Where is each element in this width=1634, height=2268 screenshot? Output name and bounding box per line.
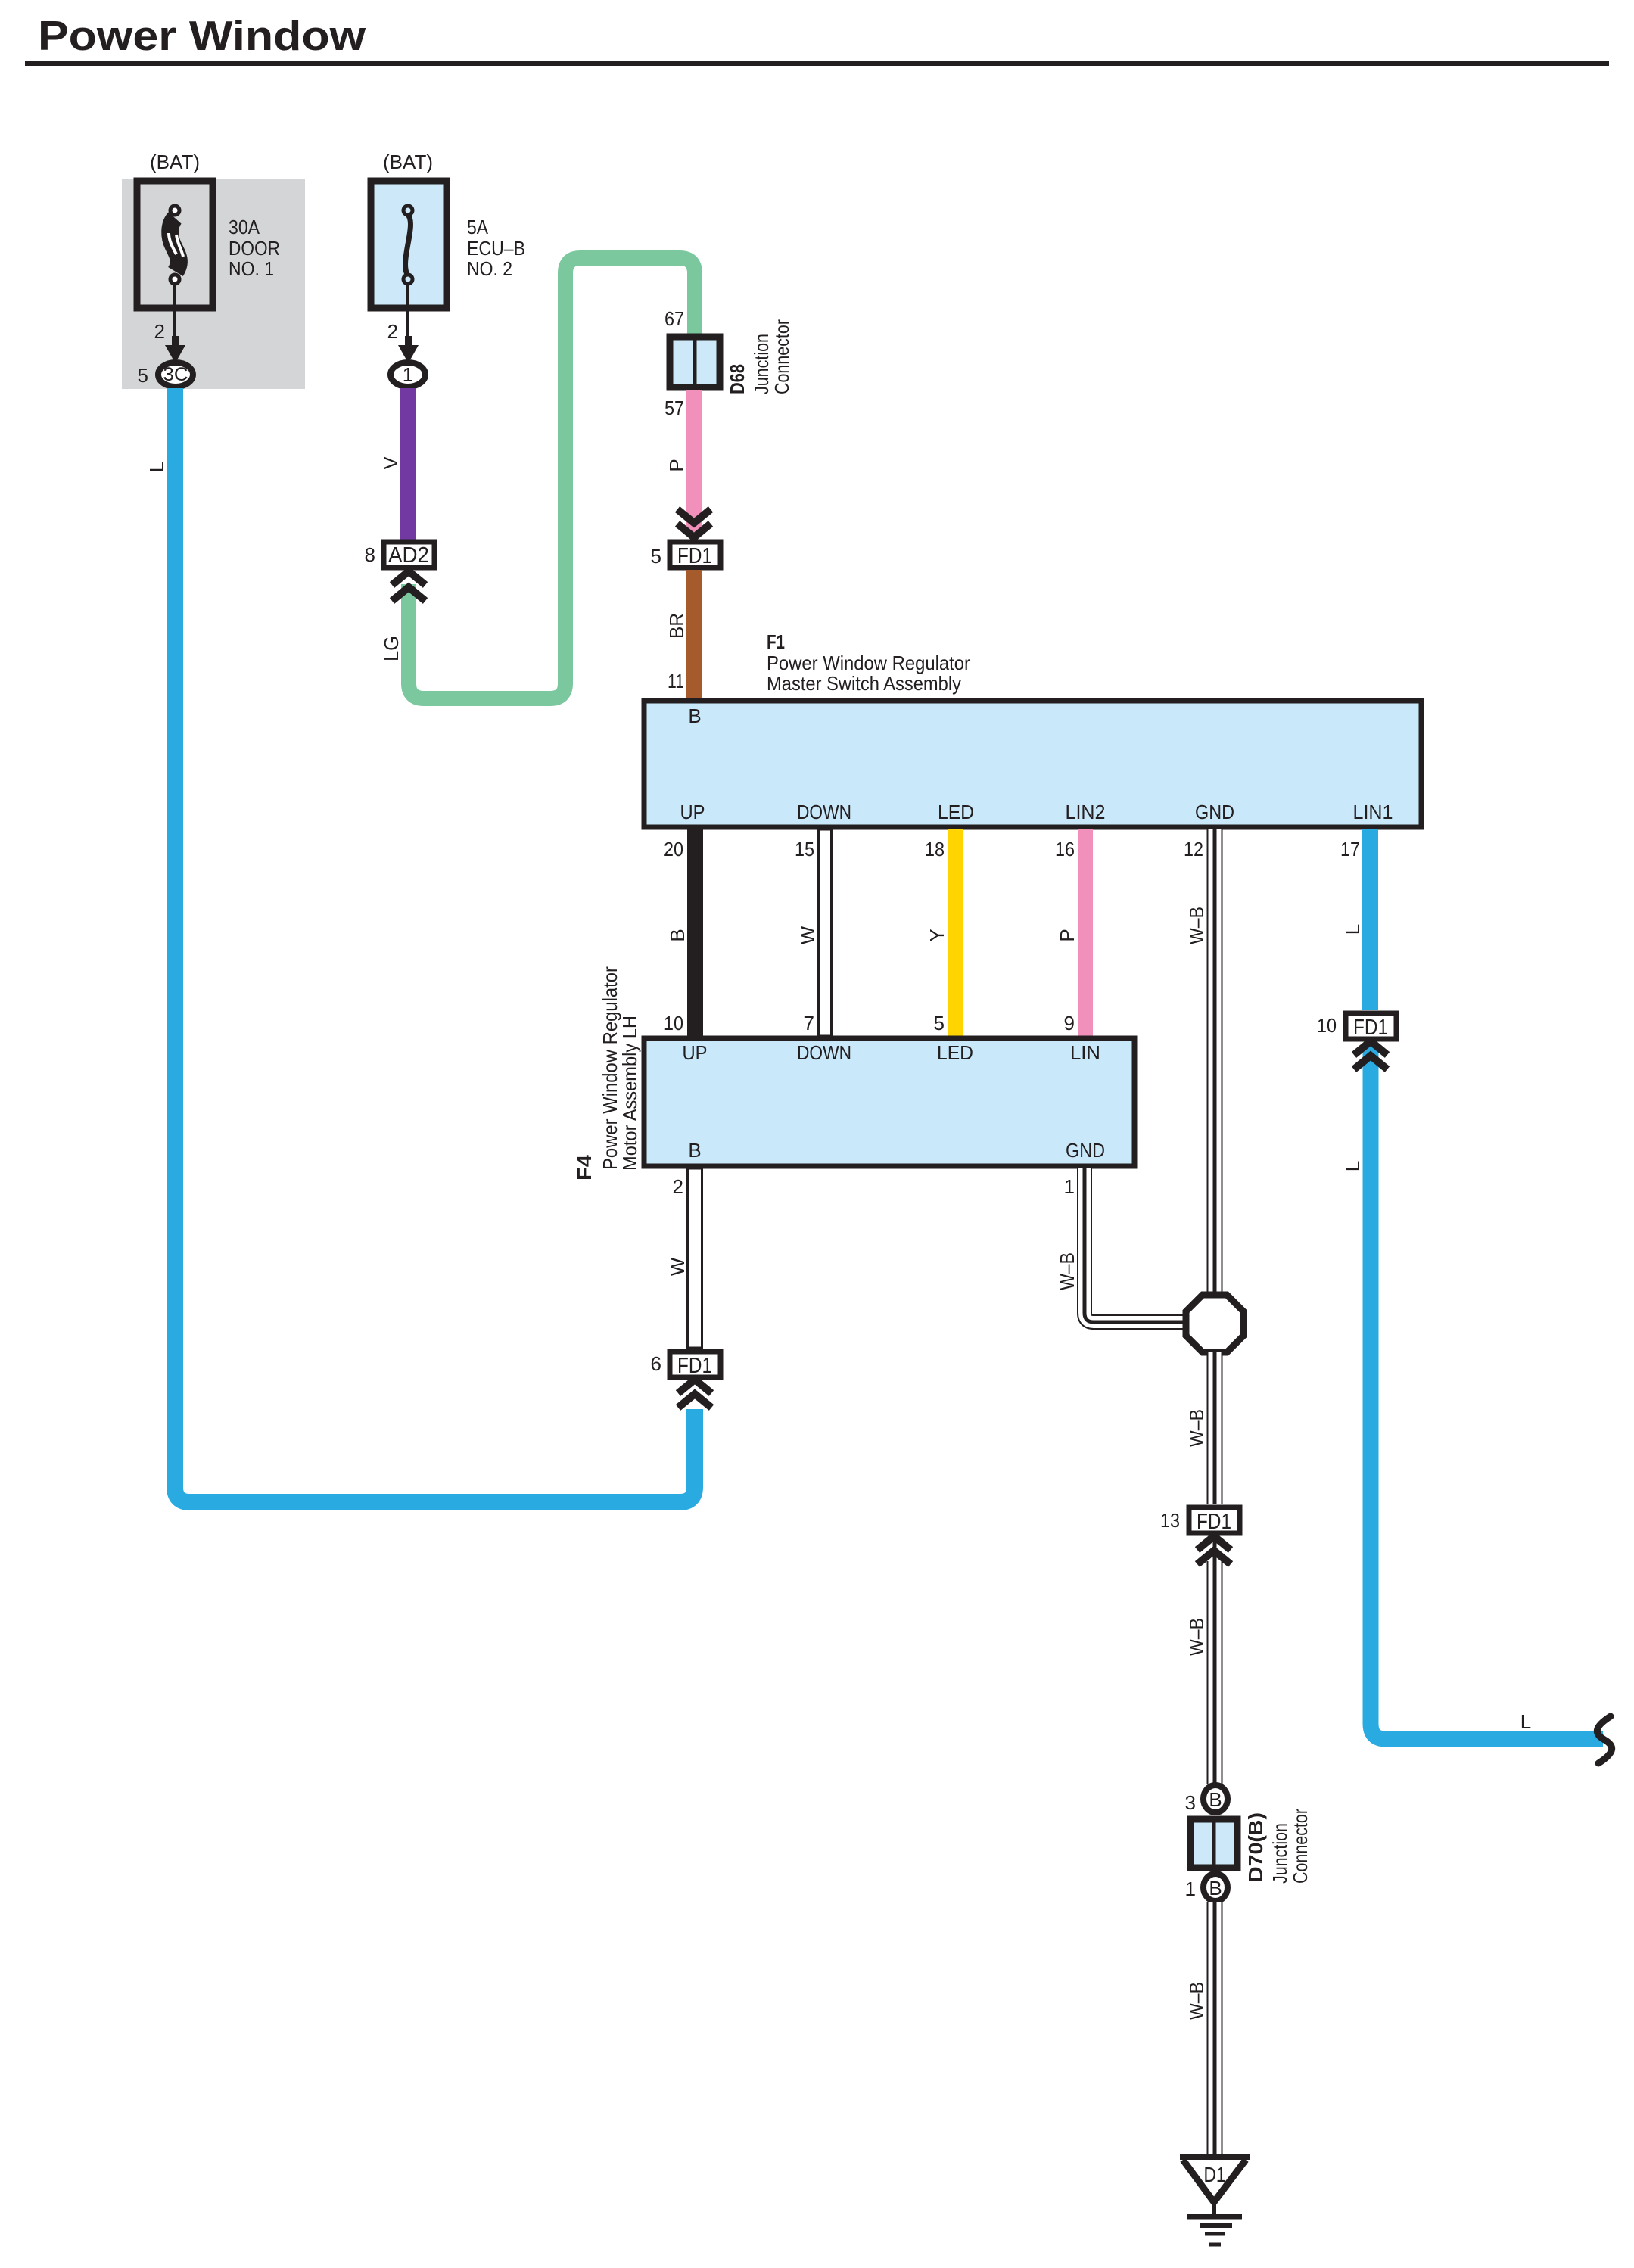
svg-text:B: B [666,929,689,941]
svg-text:(BAT): (BAT) [150,151,200,173]
svg-text:12: 12 [1184,838,1203,860]
chevron pair below AD2 (pointing up) [392,571,425,585]
arrow into connector 1 [398,336,419,363]
block F4 Power Window Regulator Motor Assembly LH [644,1038,1134,1166]
D70 bottom terminal oval B [1203,1874,1228,1901]
svg-text:DOWN: DOWN [797,801,851,823]
svg-text:W–B: W–B [1056,1252,1078,1290]
svg-text:P: P [1056,929,1078,941]
continuation squiggle [1597,1716,1611,1763]
svg-text:3C: 3C [163,364,188,385]
svg-text:8: 8 [365,543,375,566]
svg-text:L: L [1341,1161,1364,1171]
wire W-B D70 to ground D1 [1207,1902,1223,2154]
wire L blue FD1 pin10 down to right bottom [1371,1043,1603,1739]
connector FD1 pin5 [670,542,721,568]
svg-text:D68: D68 [726,364,749,394]
svg-text:2: 2 [387,320,398,343]
ground symbol D1 [1180,2154,1250,2160]
svg-text:10: 10 [1317,1014,1337,1037]
svg-text:Junction: Junction [750,334,773,394]
chevron pair below FD1 pin6 (pointing up) [678,1380,711,1393]
svg-text:LG: LG [380,636,403,661]
wire Y yellow F1 LED to F4 [948,829,963,1036]
svg-text:FD1: FD1 [1353,1016,1388,1040]
svg-text:11: 11 [668,670,684,692]
wire V purple from connector 1 to AD2 [400,388,416,540]
svg-text:DOWN: DOWN [797,1041,851,1064]
connector FD1 pin10 [1346,1013,1396,1039]
fuse 5A top terminal circle [403,206,412,215]
svg-text:DOOR: DOOR [229,237,280,260]
junction connector D70(B) [1190,1819,1237,1868]
svg-text:16: 16 [1055,838,1075,860]
svg-text:Power Window: Power Window [38,12,366,59]
wire W-B FD1 pin13 to D70 [1213,1534,1217,1563]
svg-text:L: L [1341,924,1364,935]
chevron pair above FD1 pin5 (pointing down) [677,509,711,523]
svg-text:L: L [145,462,168,472]
fuse 30A symbol blob [170,218,179,272]
svg-text:NO. 1: NO. 1 [229,257,274,280]
svg-text:W–B: W–B [1185,1982,1208,2020]
svg-text:UP: UP [680,801,705,823]
svg-text:FD1: FD1 [677,544,712,568]
block F1 Power Window Regulator Master Switch Assembly [644,701,1421,827]
fuse 30A bottom terminal circle [170,275,179,284]
wire L blue F1 LIN1 to FD1 pin10 [1362,829,1378,1010]
svg-text:(BAT): (BAT) [383,151,433,173]
wire P pink F1 LIN2 to F4 [1078,829,1093,1036]
svg-text:9: 9 [1064,1012,1075,1034]
svg-text:W–B: W–B [1185,1618,1208,1656]
connector FD1 pin6 [670,1352,721,1377]
octagon junction node [1186,1295,1243,1352]
svg-text:5: 5 [934,1012,945,1034]
svg-text:6: 6 [651,1352,661,1375]
svg-text:67: 67 [664,307,684,330]
svg-text:B: B [1209,1877,1222,1899]
svg-text:B: B [688,705,701,727]
wire fuse ECU-B to connector 1 [406,285,409,342]
junction connector D68 [670,337,720,387]
svg-text:Power Window Regulator: Power Window Regulator [767,652,970,674]
svg-text:Connector: Connector [770,319,793,394]
svg-text:5: 5 [138,364,148,387]
D70 top terminal oval B [1203,1785,1228,1812]
svg-text:13: 13 [1160,1509,1180,1532]
svg-text:30A: 30A [229,216,260,238]
gray panel behind fuse DOOR NO.1 [122,179,305,389]
chevron pair below FD1 pin13 (pointing up) [1197,1536,1231,1550]
svg-text:ECU–B: ECU–B [467,237,525,260]
fuse 5A symbol [406,215,411,275]
wire fuse DOOR to connector 3C [173,285,176,342]
svg-text:20: 20 [664,838,683,860]
svg-text:UP: UP [683,1041,708,1064]
svg-text:57: 57 [664,397,684,419]
svg-text:D70(B): D70(B) [1244,1812,1267,1882]
svg-text:W–B: W–B [1185,907,1208,944]
svg-text:15: 15 [795,838,814,860]
svg-text:P: P [665,459,688,471]
svg-text:LIN: LIN [1070,1041,1100,1064]
svg-text:W: W [666,1257,689,1276]
wire W white from F4 B to FD1 pin6 [688,1168,702,1348]
svg-text:W: W [796,926,819,944]
fuse 30A DOOR NO.1 box [137,181,213,308]
arrow into connector 3C [165,336,185,363]
svg-text:Master Switch Assembly: Master Switch Assembly [767,672,961,695]
svg-text:FD1: FD1 [677,1354,712,1378]
svg-text:Motor Assembly LH: Motor Assembly LH [618,1016,641,1171]
svg-text:Connector: Connector [1289,1809,1312,1884]
connector FD1 pin13 [1189,1507,1240,1533]
svg-text:B: B [1209,1788,1222,1811]
svg-text:2: 2 [673,1175,683,1198]
wire W-B from F4 GND to octagon junction [1085,1168,1188,1322]
fuse 5A bottom terminal circle [403,275,412,284]
svg-text:17: 17 [1340,838,1360,860]
svg-text:W–B: W–B [1185,1409,1208,1447]
chevron pair below FD1 pin10 (pointing up) [1354,1041,1387,1055]
svg-text:1: 1 [403,363,413,386]
connector oval 1 [391,362,425,387]
wire P pink from D68 to FD1 [686,390,702,532]
svg-text:F4: F4 [573,1154,596,1181]
fuse 5A ECU-B NO.2 box [371,181,447,308]
svg-text:18: 18 [925,838,945,860]
wire W white F1 DOWN to F4 [819,829,832,1036]
svg-text:V: V [379,456,402,470]
wire L blue from connector 3C to FD1 pin6 [175,388,695,1502]
svg-text:BR: BR [665,613,688,639]
svg-text:10: 10 [664,1012,683,1034]
svg-text:B: B [688,1139,701,1162]
svg-text:5: 5 [651,545,661,568]
wire BR brown from FD1 to F1 pin 11 [686,570,702,698]
svg-text:NO. 2: NO. 2 [467,257,512,280]
connector oval 3C [158,362,193,387]
svg-text:5A: 5A [467,216,489,238]
title underline [25,61,1609,66]
svg-text:Y: Y [926,929,948,941]
svg-text:2: 2 [154,320,165,343]
svg-text:Junction: Junction [1268,1823,1291,1884]
svg-text:LIN2: LIN2 [1066,801,1106,823]
wire W-B trunk from F1 GND to octagon junction [1207,829,1223,1297]
svg-text:1: 1 [1185,1878,1196,1900]
svg-text:FD1: FD1 [1197,1510,1231,1534]
svg-text:LED: LED [937,1041,973,1064]
svg-text:1: 1 [1064,1175,1075,1198]
wire W-B octagon to FD1 pin13 [1207,1352,1223,1504]
svg-text:AD2: AD2 [388,543,429,568]
wire LG green from AD2 chevron through top loop to D68 [409,258,695,698]
svg-text:3: 3 [1185,1791,1196,1814]
svg-text:LIN1: LIN1 [1353,801,1393,823]
fuse 30A top terminal circle [170,206,179,215]
svg-text:GND: GND [1066,1139,1105,1162]
svg-text:F1: F1 [767,630,785,653]
wire B black F1 UP to F4 [687,829,703,1036]
svg-text:L: L [1520,1710,1531,1733]
svg-text:D1: D1 [1204,2163,1226,2186]
connector AD2 [384,542,434,568]
svg-text:LED: LED [938,801,974,823]
svg-text:7: 7 [804,1012,814,1034]
svg-text:GND: GND [1195,801,1234,823]
